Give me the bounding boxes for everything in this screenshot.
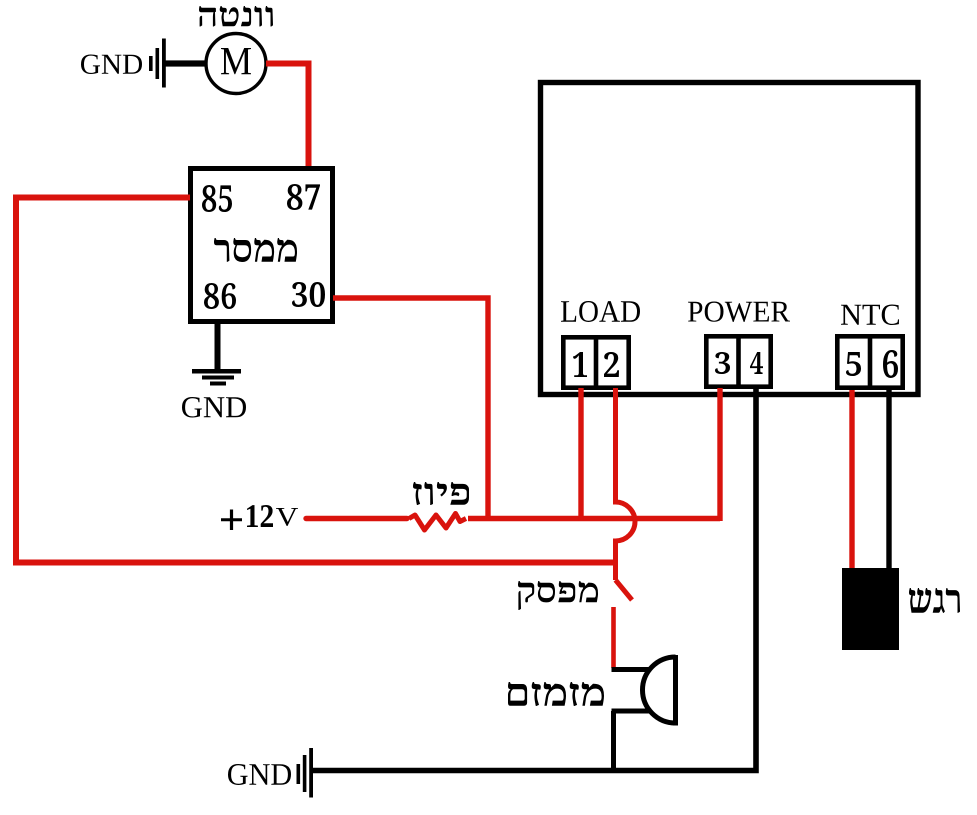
relay K1 (Hebrew mimser) box [191,169,333,322]
pin label 3 [715,352,730,374]
wire: pin 6 to sensor (black) [886,390,891,570]
wire: fuse to pin3 node (red) [468,516,720,521]
relay pin label 30 [292,282,325,307]
thermostat controller box [541,83,919,395]
relay pin label 87 [287,184,320,210]
switch label (Hebrew mafsek) [518,581,598,610]
wire: relay pin 30 to +12V node (red) [333,298,488,521]
pin label 1 [573,352,587,377]
terminal block POWER (pins 3,4) [706,334,770,389]
NTC sensor (Hebrew regesh) [842,568,899,650]
ground symbol (bottom GND) [297,748,314,798]
buzzer BZ (Hebrew mezamzem) [612,655,676,726]
wire: motor to relay pin 87 (red) [266,64,309,168]
ground symbol (motor GND) [149,39,166,88]
LOAD label [561,301,640,322]
GND label (relay) [182,397,246,418]
terminal block NTC (pins 5,6) [837,334,902,390]
GND label (motor) [81,55,142,75]
fuse label (Hebrew fiyuz) [413,482,469,505]
wire: +12V feed with fuse (red) [306,516,407,521]
buzzer label (Hebrew mezamzem) [508,682,604,706]
motor M (fan motor) [206,34,266,94]
pin label 6 [883,350,898,378]
relay pin label 86 [204,283,236,309]
terminal block LOAD (pins 1,2) [563,335,628,390]
pin label 5 [846,352,861,376]
pin label 4 [750,352,763,374]
fuse F1 zigzag [409,514,466,531]
switch blade (Hebrew mafsek) [616,580,633,600]
label: fan (Hebrew vonta) [199,6,273,27]
GND label (bottom) [228,764,291,785]
sensor label (Hebrew regesh) [909,588,960,613]
wire: ground to motor (black) [164,60,206,66]
wire: pin 2 down with hop over +12V line (red) [616,388,636,580]
wire: relay pin 86 to ground (black) [215,323,221,371]
wire: pin 4 to bottom ground line (black) [312,389,756,771]
+12V label [221,510,242,531]
relay label (Hebrew mimser) [214,238,297,262]
wire: pin 5 to sensor (red) [849,390,854,569]
wire: pin 1 to +12V line (red) [578,388,583,521]
POWER label [688,302,790,323]
wire: switch bottom contact to buzzer (red) [611,607,616,668]
wire: relay pin 85 to switch node (red, left loop) [16,198,614,563]
pin label 2 [604,352,619,377]
wire: buzzer to bottom ground line (black) [611,711,616,770]
relay pin label 85 [202,185,232,212]
wire: pin 3 to +12V line end (red) [717,388,722,521]
ground symbol (relay GND) [192,369,241,386]
NTC label [841,305,899,326]
